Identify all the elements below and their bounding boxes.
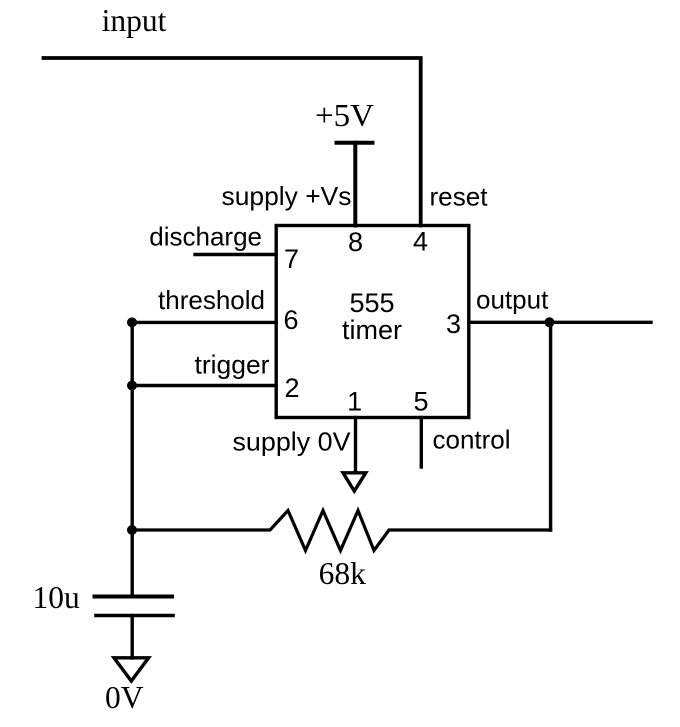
svg-text:7: 7 <box>284 244 299 274</box>
svg-text:threshold: threshold <box>158 285 265 315</box>
svg-text:4: 4 <box>413 227 428 257</box>
svg-text:reset: reset <box>430 182 489 212</box>
svg-text:output: output <box>476 285 549 315</box>
svg-text:5: 5 <box>413 387 428 417</box>
svg-text:0V: 0V <box>105 680 144 715</box>
svg-text:trigger: trigger <box>195 350 270 380</box>
svg-text:control: control <box>433 425 511 455</box>
svg-text:68k: 68k <box>319 556 367 591</box>
svg-text:input: input <box>102 3 167 38</box>
svg-text:+5V: +5V <box>315 98 374 133</box>
svg-text:555: 555 <box>349 288 394 318</box>
svg-text:timer: timer <box>342 315 402 345</box>
svg-text:3: 3 <box>446 309 461 339</box>
svg-text:8: 8 <box>348 227 363 257</box>
svg-text:supply +Vs: supply +Vs <box>222 181 352 211</box>
svg-text:1: 1 <box>347 387 362 417</box>
svg-text:10u: 10u <box>32 580 80 615</box>
svg-text:6: 6 <box>283 305 298 335</box>
svg-text:2: 2 <box>284 373 299 403</box>
svg-text:discharge: discharge <box>149 222 262 252</box>
svg-text:supply 0V: supply 0V <box>233 427 352 457</box>
